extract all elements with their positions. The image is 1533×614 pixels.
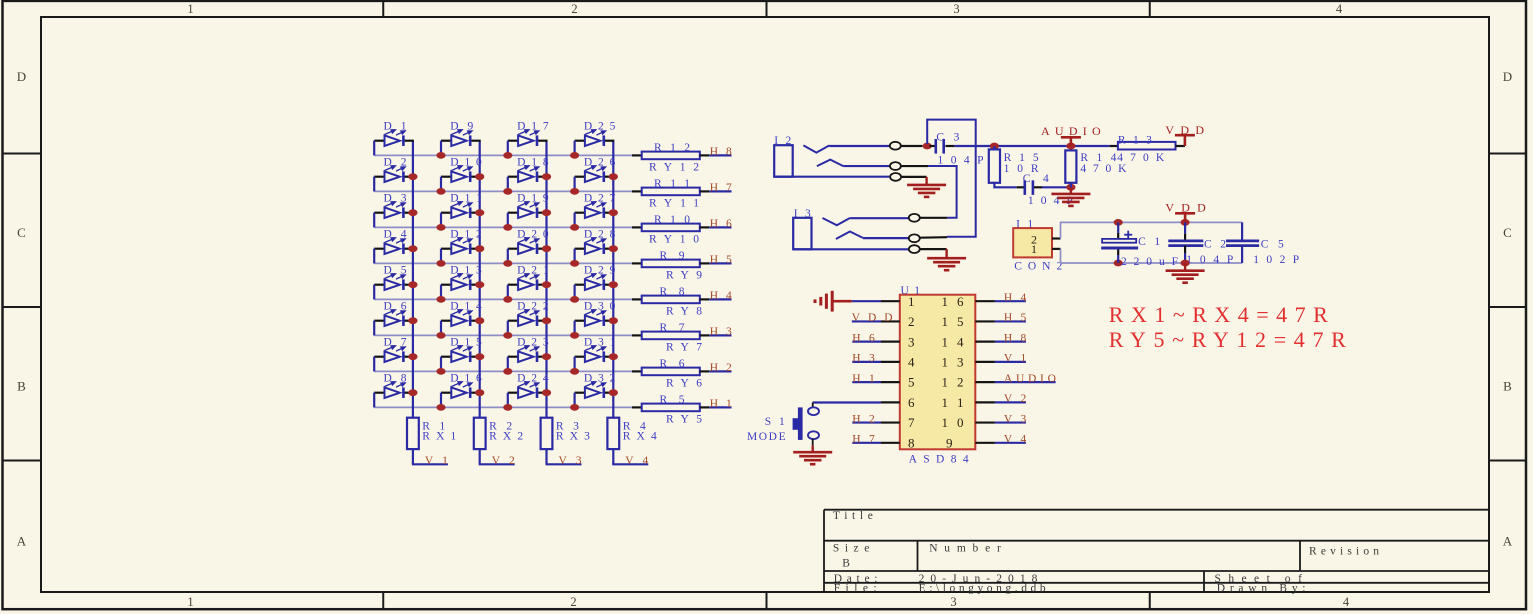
IC U1 pin 12 lead bbox=[975, 381, 995, 383]
junction row 1 drop 4 bbox=[570, 152, 579, 159]
diode D29 bbox=[575, 265, 616, 300]
svg-text:R12: R12 bbox=[654, 142, 690, 154]
switch S1 bbox=[747, 403, 819, 443]
svg-text:D28: D28 bbox=[584, 229, 616, 241]
net label H3 pin 4 bbox=[852, 353, 881, 365]
net label V2 pin 11 bbox=[995, 393, 1027, 405]
IC U1 pin 15 lead bbox=[975, 320, 995, 322]
capacitor C5 bbox=[1226, 222, 1299, 266]
IC U1 pin 13 lead bbox=[975, 361, 995, 363]
net label H4 pin 16 bbox=[995, 292, 1027, 304]
junction column 1 row 6 bbox=[408, 317, 417, 324]
jack I2 tip contact bbox=[803, 145, 829, 152]
wire I2 sleeve to ground bbox=[902, 176, 927, 178]
diode D10 bbox=[441, 157, 482, 192]
svg-text:3: 3 bbox=[908, 334, 915, 349]
jack I2 ring pin circle bbox=[890, 162, 901, 170]
resistor R10 bbox=[632, 214, 709, 246]
diode D20 bbox=[508, 229, 549, 264]
diode D28 bbox=[575, 229, 616, 264]
svg-text:D27: D27 bbox=[584, 193, 616, 205]
net label H7 bbox=[709, 182, 732, 194]
resistor R13 bbox=[1110, 135, 1185, 164]
diode D32 bbox=[575, 373, 616, 408]
ground C2 bbox=[1166, 263, 1205, 283]
jack I3 tip contact bbox=[823, 218, 850, 225]
zone numbers bottom bbox=[187, 595, 1350, 609]
wire I3 tip bbox=[850, 217, 908, 219]
connector I1 body bbox=[1013, 228, 1052, 257]
svg-text:1: 1 bbox=[187, 2, 193, 16]
junction column 4 row 8 bbox=[609, 389, 618, 396]
junction row 2 drop 4 bbox=[570, 188, 579, 195]
diode D12 bbox=[441, 229, 482, 264]
junction row 2 drop 2 bbox=[436, 188, 445, 195]
net label H3 bbox=[709, 326, 732, 338]
IC U1 pin 5 lead bbox=[881, 381, 900, 383]
svg-text:D: D bbox=[17, 69, 26, 84]
junction row 6 drop 4 bbox=[570, 332, 579, 339]
wire S1 to pin6 bbox=[813, 401, 881, 403]
power port VDD rail bbox=[1165, 201, 1206, 223]
junction row 7 drop 2 bbox=[436, 368, 445, 375]
net label H7 pin 8 bbox=[852, 434, 881, 446]
svg-text:2: 2 bbox=[570, 595, 576, 609]
jack I2 ring contact bbox=[817, 160, 843, 167]
junction row 5 drop 4 bbox=[570, 296, 579, 303]
svg-text:R11: R11 bbox=[654, 178, 690, 190]
IC U1 pin 7 lead bbox=[881, 421, 900, 423]
wire I3 ring bbox=[863, 237, 908, 239]
junction column 3 row 8 bbox=[542, 389, 551, 396]
resistor R4 bbox=[607, 418, 657, 465]
junction row 8 drop 2 bbox=[436, 404, 445, 411]
wire I2 tip lead bbox=[901, 145, 923, 147]
svg-text:D16: D16 bbox=[450, 373, 482, 385]
jack I2 body bbox=[774, 145, 793, 177]
junction column 4 row 3 bbox=[609, 209, 618, 216]
wire column V4 line bbox=[612, 141, 614, 418]
junction column 2 row 6 bbox=[475, 317, 484, 324]
net label H2 pin 7 bbox=[852, 413, 881, 425]
junction column 4 row 6 bbox=[609, 317, 618, 324]
svg-text:D31: D31 bbox=[584, 337, 616, 349]
diode D15 bbox=[441, 337, 482, 372]
svg-text:RX2: RX2 bbox=[489, 430, 523, 442]
IC U1 body bbox=[900, 295, 976, 450]
svg-text:A: A bbox=[1503, 534, 1513, 549]
net label H8 pin 14 bbox=[995, 332, 1027, 344]
junction column 3 row 2 bbox=[542, 173, 551, 180]
svg-text:RX4: RX4 bbox=[623, 430, 657, 442]
svg-text:VDD: VDD bbox=[1165, 123, 1204, 137]
svg-text:D15: D15 bbox=[450, 337, 482, 349]
junction row 8 drop 3 bbox=[503, 404, 512, 411]
diode D26 bbox=[575, 157, 616, 192]
wire I2 tip bbox=[829, 145, 889, 147]
net label H4 bbox=[709, 290, 732, 302]
svg-text:E:\longyong.ddb: E:\longyong.ddb bbox=[919, 582, 1046, 594]
wire row H6 line bbox=[374, 226, 632, 228]
diode D1 bbox=[374, 121, 414, 156]
svg-text:C: C bbox=[1503, 225, 1512, 240]
IC U1 pin 2 lead bbox=[881, 320, 900, 322]
junction row 7 drop 4 bbox=[570, 368, 579, 375]
diode D23 bbox=[508, 337, 549, 372]
junction row 5 drop 3 bbox=[503, 296, 512, 303]
wire row H3 line bbox=[374, 334, 632, 336]
title block grid bbox=[824, 510, 1489, 592]
wire I3 sleeve lead bbox=[920, 248, 946, 250]
ground S1 bbox=[793, 445, 832, 464]
net label H5 bbox=[709, 254, 732, 266]
svg-text:D29: D29 bbox=[584, 265, 616, 277]
resistor R1 bbox=[407, 418, 457, 465]
svg-text:D18: D18 bbox=[517, 157, 549, 169]
junction C3 left bbox=[923, 143, 932, 150]
net label H1 pin 5 bbox=[852, 373, 881, 385]
IC U1 pin 4 lead bbox=[881, 361, 900, 363]
svg-text:3: 3 bbox=[953, 2, 959, 16]
svg-text:4: 4 bbox=[908, 354, 915, 369]
junction row 4 drop 4 bbox=[570, 260, 579, 267]
svg-text:B: B bbox=[17, 379, 26, 394]
net label V1 bbox=[412, 455, 448, 467]
wire I3 ring lead bbox=[920, 236, 947, 239]
junction column 3 row 6 bbox=[542, 317, 551, 324]
resistor R7 bbox=[632, 322, 709, 354]
net label H2 bbox=[709, 362, 732, 374]
svg-text:R13: R13 bbox=[1118, 135, 1152, 147]
net label VDD pin 2 bbox=[852, 312, 893, 324]
wire row H2 line bbox=[374, 370, 632, 372]
diode D9 bbox=[441, 121, 481, 156]
wire I2 ring to loop B bbox=[901, 165, 928, 167]
resistor R2 bbox=[474, 418, 524, 465]
junction row 3 drop 4 bbox=[570, 224, 579, 231]
diode D4 bbox=[374, 229, 414, 264]
ground U1 pin1 rotated bbox=[815, 291, 852, 312]
net label H6 bbox=[709, 218, 732, 230]
zone numbers top bbox=[187, 2, 1343, 16]
junction row 6 drop 2 bbox=[436, 332, 445, 339]
junction row 3 drop 3 bbox=[503, 224, 512, 231]
resistor R6 bbox=[632, 358, 709, 390]
diode D22 bbox=[508, 301, 549, 336]
net label V2 bbox=[479, 455, 515, 467]
net label H6 pin 3 bbox=[852, 332, 881, 344]
svg-text:RY5: RY5 bbox=[666, 414, 702, 426]
junction C2 bottom bbox=[1181, 260, 1190, 267]
wire row H4 line bbox=[374, 298, 632, 300]
svg-text:D20: D20 bbox=[517, 229, 549, 241]
svg-text:R15: R15 bbox=[1004, 152, 1039, 164]
wire row H5 line bbox=[374, 262, 632, 264]
junction column 2 row 4 bbox=[475, 245, 484, 252]
svg-text:B: B bbox=[1503, 379, 1512, 394]
svg-text:B: B bbox=[842, 558, 850, 570]
junction AUDIO bbox=[1066, 143, 1075, 150]
junction column 3 row 5 bbox=[542, 281, 551, 288]
svg-text:D26: D26 bbox=[584, 157, 616, 169]
junction R15 top bbox=[990, 143, 999, 150]
net label H5 pin 15 bbox=[995, 312, 1027, 324]
IC U1 pin 11 lead bbox=[975, 401, 995, 403]
svg-text:RY9: RY9 bbox=[666, 270, 702, 282]
diode D16 bbox=[441, 373, 482, 408]
junction C1 top bbox=[1114, 219, 1123, 226]
power port AUDIO bbox=[1041, 124, 1101, 146]
ground R14 bbox=[1051, 187, 1090, 206]
svg-text:D: D bbox=[1503, 69, 1512, 84]
capacitor C4 bbox=[1017, 173, 1073, 207]
diode D2 bbox=[374, 157, 414, 192]
svg-text:D25: D25 bbox=[584, 121, 616, 133]
svg-text:D30: D30 bbox=[584, 301, 616, 313]
svg-text:1: 1 bbox=[908, 294, 915, 309]
wire column V1 line bbox=[412, 141, 414, 418]
svg-text:4: 4 bbox=[1343, 595, 1350, 609]
wire column V2 line bbox=[479, 141, 481, 418]
resistor R11 bbox=[632, 178, 709, 210]
connector I1 pin 2 lead bbox=[1052, 237, 1061, 239]
junction column 2 row 3 bbox=[475, 209, 484, 216]
power port VDD top bbox=[1165, 123, 1204, 146]
svg-text:D21: D21 bbox=[517, 265, 549, 277]
diode D17 bbox=[508, 121, 549, 156]
svg-text:10R: 10R bbox=[1004, 163, 1039, 175]
junction row 6 drop 3 bbox=[503, 332, 512, 339]
jack I2 sleeve pin circle bbox=[890, 173, 901, 181]
svg-text:RY6: RY6 bbox=[666, 378, 702, 390]
wire loop B vertical bbox=[928, 166, 957, 218]
diode D18 bbox=[508, 157, 549, 192]
wire I2 ring bbox=[843, 165, 889, 167]
svg-text:D23: D23 bbox=[517, 337, 549, 349]
junction column 1 row 8 bbox=[408, 389, 417, 396]
svg-text:A: A bbox=[17, 534, 27, 549]
wire I2 sleeve bbox=[774, 176, 889, 178]
svg-text:1: 1 bbox=[187, 595, 193, 609]
svg-text:RX1: RX1 bbox=[422, 430, 456, 442]
wire GND bottom rail bbox=[1061, 249, 1243, 263]
net label H8 bbox=[709, 146, 732, 158]
svg-text:VDD: VDD bbox=[1165, 201, 1206, 215]
IC U1 pin 10 lead bbox=[975, 421, 995, 423]
wire column V3 line bbox=[545, 141, 547, 418]
jack I3 ring pin circle bbox=[909, 234, 920, 242]
junction column 2 row 7 bbox=[475, 353, 484, 360]
wire I3 tip lead bbox=[920, 217, 947, 219]
jack I3 sleeve pin circle bbox=[909, 245, 920, 253]
ground I2 bbox=[907, 177, 946, 197]
wire pin1 to ground bbox=[852, 300, 881, 302]
svg-text:R10: R10 bbox=[654, 214, 690, 226]
net label V4 pin 9 bbox=[995, 434, 1027, 446]
svg-text:D22: D22 bbox=[517, 301, 549, 313]
wire row H8 line bbox=[374, 154, 632, 156]
diode D19 bbox=[508, 193, 549, 228]
IC U1 pin 1 lead bbox=[881, 300, 900, 302]
junction column 1 row 2 bbox=[408, 173, 417, 180]
svg-text:5: 5 bbox=[908, 375, 915, 390]
wire C4 to R14 bottom bbox=[1042, 186, 1071, 188]
diode D6 bbox=[374, 301, 414, 336]
svg-text:Drawn By:: Drawn By: bbox=[1217, 582, 1306, 594]
IC U1 pin 9 lead bbox=[975, 442, 995, 444]
svg-text:4: 4 bbox=[1336, 2, 1343, 16]
svg-text:D10: D10 bbox=[450, 157, 482, 169]
svg-text:AUDIO: AUDIO bbox=[1004, 373, 1056, 385]
junction column 1 row 7 bbox=[408, 353, 417, 360]
jack I2 tip pin circle bbox=[890, 142, 901, 150]
svg-text:D32: D32 bbox=[584, 373, 616, 385]
junction row 4 drop 3 bbox=[503, 260, 512, 267]
net label AUDIO pin 12 bbox=[995, 373, 1056, 385]
junction VDD rail bbox=[1181, 219, 1190, 226]
IC U1 pin 3 lead bbox=[881, 341, 900, 343]
svg-text:Title: Title bbox=[833, 510, 873, 522]
junction column 2 row 5 bbox=[475, 281, 484, 288]
diode D13 bbox=[441, 265, 482, 300]
svg-text:RX1~RX4=47R: RX1~RX4=47R bbox=[1109, 302, 1328, 327]
zone letters left bbox=[17, 69, 27, 549]
IC U1 pin 14 lead bbox=[975, 341, 995, 343]
diode D7 bbox=[374, 337, 414, 372]
junction row 7 drop 3 bbox=[503, 368, 512, 375]
junction column 2 row 2 bbox=[475, 173, 484, 180]
junction row 3 drop 2 bbox=[436, 224, 445, 231]
net label V3 bbox=[546, 455, 582, 467]
junction column 4 row 4 bbox=[609, 245, 618, 252]
svg-text:D19: D19 bbox=[517, 193, 549, 205]
svg-text:MODE: MODE bbox=[747, 431, 786, 443]
svg-text:RX3: RX3 bbox=[556, 430, 590, 442]
diode D24 bbox=[508, 373, 549, 408]
junction column 3 row 7 bbox=[542, 353, 551, 360]
resistor R9 bbox=[632, 250, 709, 282]
net label H1 bbox=[709, 398, 732, 410]
zone letters right bbox=[1503, 69, 1513, 549]
net label V3 pin 10 bbox=[995, 413, 1027, 425]
svg-text:1: 1 bbox=[1031, 242, 1037, 256]
junction row 4 drop 2 bbox=[436, 260, 445, 267]
diode D3 bbox=[374, 193, 414, 228]
junction column 3 row 4 bbox=[542, 245, 551, 252]
diode D14 bbox=[441, 301, 482, 336]
jack I3 tip pin circle bbox=[909, 214, 920, 222]
wire S1 bottom bbox=[812, 439, 814, 445]
jack I3 ring contact bbox=[836, 232, 863, 240]
svg-text:C: C bbox=[17, 225, 26, 240]
junction column 4 row 7 bbox=[609, 353, 618, 360]
IC U1 pin 6 lead bbox=[881, 401, 900, 403]
wire I3 sleeve bbox=[793, 248, 908, 250]
junction column 3 row 3 bbox=[542, 209, 551, 216]
diode D25 bbox=[575, 121, 616, 156]
net label V4 bbox=[612, 455, 648, 467]
resistor R5 bbox=[632, 394, 709, 426]
IC U1 pin 8 lead bbox=[881, 442, 900, 444]
junction column 2 row 8 bbox=[475, 389, 484, 396]
svg-text:D11: D11 bbox=[450, 193, 482, 205]
junction R14 bottom bbox=[1066, 184, 1075, 191]
junction column 1 row 5 bbox=[408, 281, 417, 288]
junction row 1 drop 2 bbox=[436, 152, 445, 159]
junction row 2 drop 3 bbox=[503, 188, 512, 195]
svg-text:VDD: VDD bbox=[852, 312, 893, 324]
diode D8 bbox=[374, 373, 414, 408]
junction column 1 row 3 bbox=[408, 209, 417, 216]
wire row H7 line bbox=[374, 190, 632, 192]
diode D5 bbox=[374, 265, 414, 300]
diode D11 bbox=[441, 193, 482, 228]
diode D31 bbox=[575, 337, 616, 372]
svg-text:2: 2 bbox=[908, 314, 915, 329]
resistor R12 bbox=[632, 142, 709, 174]
svg-text:3: 3 bbox=[950, 595, 956, 609]
svg-text:D17: D17 bbox=[517, 121, 549, 133]
junction column 4 row 5 bbox=[609, 281, 618, 288]
capacitor C1 bbox=[1101, 222, 1178, 268]
capacitor C3 bbox=[930, 132, 984, 167]
IC U1 pin 16 lead bbox=[975, 300, 995, 302]
jack I3 body bbox=[793, 218, 811, 250]
wire C3 to R13 bbox=[954, 145, 1110, 147]
svg-text:D12: D12 bbox=[450, 229, 482, 241]
svg-text:9: 9 bbox=[946, 435, 953, 450]
diode D21 bbox=[508, 265, 549, 300]
svg-text:R14: R14 bbox=[1080, 152, 1116, 164]
resistor R14 bbox=[1065, 146, 1127, 187]
resistor R15 bbox=[989, 146, 1039, 183]
junction column 4 row 2 bbox=[609, 173, 618, 180]
svg-text:D13: D13 bbox=[450, 265, 482, 277]
svg-text:RY8: RY8 bbox=[666, 306, 702, 318]
title block text Sheet of bbox=[1215, 573, 1303, 585]
junction C1 bottom bbox=[1114, 260, 1123, 267]
svg-text:D14: D14 bbox=[450, 301, 482, 313]
junction row 5 drop 2 bbox=[436, 296, 445, 303]
svg-text:6: 6 bbox=[908, 395, 915, 410]
svg-text:D24: D24 bbox=[517, 373, 549, 385]
svg-text:8: 8 bbox=[908, 435, 915, 450]
junction column 1 row 4 bbox=[408, 245, 417, 252]
wire C3 loop to I3 ring bbox=[927, 120, 976, 237]
diode D27 bbox=[575, 193, 616, 228]
wire row H1 line bbox=[374, 406, 632, 408]
wire R15 bottom to C4 bbox=[994, 183, 1016, 188]
connector I1 pin 1 lead bbox=[1052, 248, 1061, 250]
diode D30 bbox=[575, 301, 616, 336]
svg-text:2: 2 bbox=[571, 2, 577, 16]
resistor R3 bbox=[541, 418, 591, 465]
svg-text:7: 7 bbox=[908, 415, 915, 430]
junction row 8 drop 4 bbox=[570, 404, 579, 411]
net label V1 pin 13 bbox=[995, 353, 1027, 365]
resistor R8 bbox=[632, 286, 709, 318]
svg-text:RY7: RY7 bbox=[666, 342, 702, 354]
ground I3 bbox=[927, 249, 966, 270]
wire VDD top rail bbox=[1061, 222, 1243, 238]
junction row 1 drop 3 bbox=[503, 152, 512, 159]
capacitor C2 bbox=[1168, 222, 1233, 266]
